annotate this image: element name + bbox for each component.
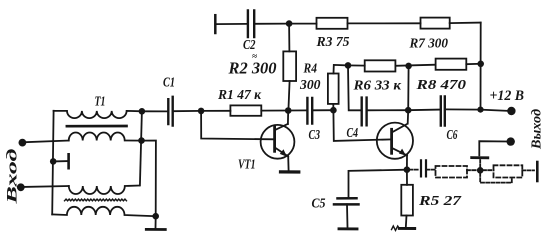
node VT2 collector [405, 107, 412, 114]
wire terminal to C2 [215, 23, 247, 25]
T1 core top [67, 125, 127, 128]
node T1 tap bar [67, 154, 70, 168]
node T1 rail tap [50, 158, 57, 165]
capacitor C4 [362, 98, 367, 126]
wire emitter to C5 [349, 170, 407, 198]
svg-text:С1: С1 [163, 75, 175, 90]
transistor VT1 [261, 124, 295, 159]
wire right rail vertical [480, 23, 482, 110]
capacitor C3 [307, 98, 312, 124]
inductor T1 winding II [69, 133, 142, 141]
wire top node to R2 [288, 24, 290, 52]
wire C3 to R4 node [313, 109, 333, 111]
node R4 bottom [330, 107, 337, 114]
wire R5 to ground [405, 216, 408, 228]
wire VT2 base [333, 110, 391, 141]
node input terminal bottom [17, 183, 25, 191]
svg-text:С4: С4 [347, 125, 359, 140]
wire VT1 emitter [287, 156, 289, 170]
wire R8 to right rail [466, 63, 480, 65]
svg-text:R6 33 к: R6 33 к [352, 78, 402, 93]
wire T1 right vertical [140, 111, 142, 185]
wire T1 to ground branch [142, 141, 156, 217]
resistor R7 [421, 18, 450, 29]
wire VT2 collector vertical [407, 66, 410, 124]
ground C5 [339, 227, 357, 230]
resistor R8 [436, 59, 467, 70]
svg-text:+12 В: +12 В [490, 88, 525, 104]
resistor R1 [230, 105, 261, 115]
wire dashed U below box2 [480, 173, 512, 183]
wire dashed junction up [479, 159, 481, 168]
wire collector node to C3 [288, 109, 306, 111]
svg-text:С2: С2 [243, 37, 256, 52]
wire R4 bottom lead [332, 104, 334, 110]
wire T1 tap stub [53, 160, 67, 162]
node C1 left junction [139, 108, 146, 115]
capacitor C5 [334, 198, 359, 204]
node X1 [198, 108, 205, 115]
node output terminal [507, 137, 515, 145]
svg-text:С5: С5 [312, 195, 326, 210]
svg-text:R7 300: R7 300 [409, 36, 448, 51]
svg-text:VT1: VT1 [238, 156, 256, 171]
resistor dashed optional 1 [436, 166, 468, 178]
wire dashed junction to box2 [483, 169, 494, 171]
wire R2 to collector node [288, 81, 289, 111]
ground T1 [155, 216, 157, 228]
capacitor dashed optional near emitter [410, 160, 436, 177]
capacitor C2 [248, 11, 254, 38]
transistor VT2 [377, 123, 413, 159]
wire C5 to ground [346, 204, 349, 227]
wire VT2 emitter [406, 155, 408, 169]
svg-text:С3: С3 [309, 127, 321, 142]
wire C2 to top node [255, 23, 289, 25]
node top rail left [286, 20, 293, 27]
svg-text:R1 47 к: R1 47 к [217, 88, 262, 103]
wire C4 to collector VT2 [368, 109, 409, 111]
node T1 ground junction [152, 213, 159, 220]
resistor R5 [401, 185, 413, 216]
svg-text:R2 300: R2 300 [228, 59, 277, 78]
node dashed chain terminal bar [536, 162, 539, 181]
ground output [472, 156, 488, 159]
inductor T1 winding III [69, 186, 139, 195]
T1 core bottom [65, 199, 127, 201]
capacitor C6 [441, 97, 445, 126]
resistor R3 [317, 18, 348, 29]
svg-text:Вход: Вход [5, 148, 21, 206]
svg-text:R3 75: R3 75 [316, 35, 350, 50]
wire emitter to R5 [406, 170, 408, 185]
wire C6 to right rail [446, 108, 481, 110]
svg-text:Выход: Выход [529, 109, 544, 150]
wire C1 to node X1 [174, 110, 201, 112]
inductor T1 winding IV [52, 207, 156, 216]
wire R3 to R7 [348, 22, 421, 24]
node +12V terminal [507, 107, 515, 115]
resistor dashed optional 2 [494, 165, 523, 177]
node right rail bottom [477, 107, 483, 113]
wire input top to T1 winding II [26, 141, 69, 143]
wire dashed to junction [467, 169, 478, 171]
resistor R2 [283, 51, 296, 81]
inductor T1 winding I [54, 111, 142, 118]
node dashed junction [477, 167, 484, 174]
wire top node to R3 [289, 23, 316, 25]
wire X1 to VT1 base [201, 111, 274, 139]
svg-text:R8 470: R8 470 [415, 78, 466, 93]
svg-text:R4: R4 [303, 62, 317, 77]
svg-text:R5 27: R5 27 [418, 194, 462, 209]
wire R1 to collector node [261, 110, 288, 112]
transformer T1 left rail wire [52, 111, 53, 215]
resistor R4 [328, 74, 339, 104]
node R6 R8 junction [405, 63, 412, 70]
svg-text:С6: С6 [447, 127, 458, 142]
wire VT1 collector [287, 111, 289, 124]
svg-text:≈: ≈ [252, 51, 257, 61]
node input terminal top [19, 139, 27, 147]
node VT1 collector [285, 107, 292, 114]
node second row left [345, 62, 352, 69]
wire dashed box2 to terminal [522, 169, 534, 171]
node T1 windings II junction [138, 137, 145, 144]
wire output to ground bar [479, 141, 507, 155]
node C2 open terminal [214, 15, 217, 33]
wire node to R6 [348, 64, 365, 66]
wire R6 to R8 [395, 65, 435, 66]
wire R4 top [334, 65, 349, 74]
wire C4 node to C6 [408, 109, 440, 112]
resistor R6 [365, 60, 396, 71]
svg-text:300: 300 [299, 78, 320, 93]
wire input bottom to T1 winding III [24, 185, 69, 188]
node right rail R8 [477, 61, 484, 68]
wire to +12V terminal [481, 110, 508, 111]
ground R5 [399, 227, 414, 230]
node VT2 emitter [404, 166, 411, 173]
ground VT1 emitter [281, 170, 299, 173]
wire R7 to right rail [450, 22, 481, 25]
capacitor C1 [168, 97, 172, 126]
wire node to C4 [348, 65, 361, 110]
svg-text:Т1: Т1 [95, 94, 106, 109]
wire X1 to R1 [201, 110, 230, 112]
wire T1 top to C1 [142, 110, 167, 112]
